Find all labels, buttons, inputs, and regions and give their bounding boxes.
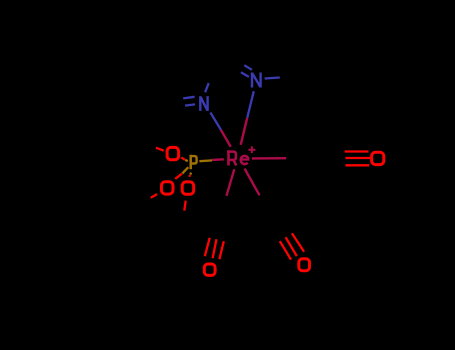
wire C#O right triple bond line 3 (red) xyxy=(345,164,369,166)
wire P-O2 bond red half xyxy=(175,174,182,179)
wire P-Re bond left half (olive) xyxy=(199,159,212,162)
wire P-O3 bond red half xyxy=(188,175,191,177)
wire N2-CH3 bond (blue half) xyxy=(265,78,280,79)
wire N2-Re bond lower half (magenta) xyxy=(241,118,248,145)
wire N1-Re bond lower half (magenta) xyxy=(221,130,231,147)
node Re+ charge plus vertical xyxy=(251,146,253,153)
node O2 phosphite oxygen label left xyxy=(162,182,174,194)
wire C#O bottom-left triple bond line 2 (red) xyxy=(213,239,217,258)
wire P-O3 bond olive half xyxy=(190,173,191,175)
wire CH=N2 double bond offset line (blue half) xyxy=(244,65,252,70)
wire C#O bottom-right triple bond line 2 (red) xyxy=(286,237,297,256)
node O1 phosphite oxygen label upper xyxy=(167,147,179,159)
wire C#O right triple bond line 1 (red) xyxy=(345,150,369,152)
wire CH=N2 main bond line (blue half) xyxy=(241,72,249,77)
node N1 nitrogen label xyxy=(200,96,207,111)
node N2 nitrogen label xyxy=(252,73,261,88)
wire O2 methyl stub (red) xyxy=(151,194,157,198)
node P phosphorus label xyxy=(190,155,197,169)
wire O1-P bond olive part xyxy=(185,160,188,161)
node O carbonyl bottom-right label xyxy=(299,259,310,271)
node O3 phosphite oxygen label right xyxy=(182,182,194,194)
wire CH2=N1 double bond offset line (blue half) xyxy=(183,97,194,99)
wire O1 methyl stub (red) xyxy=(156,148,164,151)
wire Re-C carbonyl bottom-right bond (magenta half) xyxy=(245,169,260,196)
wire N2-Re bond upper half (blue) xyxy=(247,91,254,118)
wire O1-P bond red half xyxy=(181,157,185,159)
wire P-O2 bond olive half xyxy=(182,167,188,173)
node O carbonyl right label xyxy=(372,152,384,164)
node Re rhenium label letter e xyxy=(241,156,250,164)
wire C#O right triple bond line 2 (red) xyxy=(345,157,370,159)
wire C#O bottom-left triple bond line 1 (red) xyxy=(205,238,210,256)
wire C#O bottom-left triple bond line 3 (red) xyxy=(219,241,223,259)
wire Re-C carbonyl bottom-left bond (magenta half) xyxy=(227,169,235,196)
node Re rhenium label letter R xyxy=(227,150,236,165)
wire C#O bottom-right triple bond line 1 (red) xyxy=(280,241,291,260)
node Re+ charge plus horizontal xyxy=(248,149,255,151)
node O carbonyl bottom-left label xyxy=(204,264,215,275)
wire C#O bottom-right triple bond line 3 (red) xyxy=(292,233,304,252)
wire P-Re bond right half (magenta) xyxy=(212,158,224,161)
wire N1-Re bond upper half (blue) xyxy=(210,113,221,131)
wire N1-CH bond (blue half) xyxy=(205,83,209,92)
wire Re-C carbonyl right bond (magenta half) xyxy=(252,157,286,160)
wire CH2=N1 main bond line (blue half) xyxy=(185,104,195,105)
wire O3 methyl stub (red) xyxy=(184,201,185,211)
